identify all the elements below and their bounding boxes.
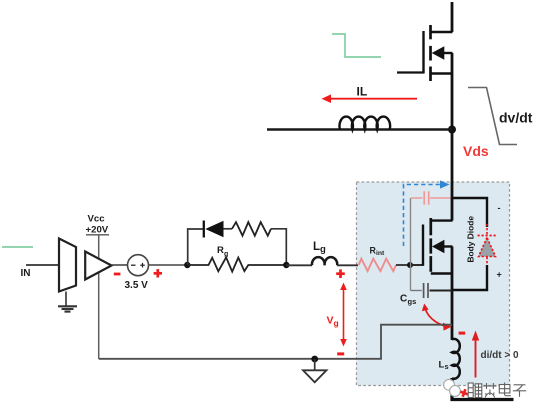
- internal gate net (vertical, Cgd to Cgs): [410, 198, 412, 291]
- wire IN to level shifter: [26, 264, 59, 266]
- wire Rint to gate node: [396, 264, 410, 266]
- svg-text:IN: IN: [21, 268, 31, 279]
- wire node B to Lg: [286, 264, 312, 266]
- IL current arrow (red, pointing left): [322, 94, 418, 103]
- MOSFET model region box: [357, 182, 510, 386]
- drain rail wire (top): [451, 2, 454, 32]
- watermark logo circles: [444, 379, 470, 398]
- wire buffer to source V1: [112, 264, 128, 266]
- svg-text:di/dt > 0: di/dt > 0: [481, 350, 520, 361]
- node IN label: [21, 268, 31, 279]
- dv/dt label: [499, 110, 533, 126]
- load inductor L1: [340, 117, 391, 130]
- inductor Ls (source parasitic): [452, 339, 460, 379]
- body diode branch wire (bottom): [452, 265, 487, 290]
- svg-text:g: g: [320, 244, 326, 255]
- body diode plus mark: [497, 270, 502, 280]
- node B junction dot: [283, 262, 289, 268]
- ground symbol (triangle): [303, 359, 327, 382]
- svg-text:Body Diode: Body Diode: [466, 216, 476, 263]
- resistor Rg label: [217, 245, 228, 258]
- dv/dt slope symbol (gray): [468, 88, 517, 145]
- ground (earth) under level shifter: [58, 306, 77, 311]
- source return wire (bottom, thick): [452, 378, 514, 400]
- resistor Rint label: [370, 246, 386, 258]
- wire resistor R2 down to node B: [271, 229, 286, 265]
- svg-text:+: +: [497, 270, 502, 280]
- gate driver buffer U2 (triangle): [85, 252, 111, 280]
- IL label: [357, 85, 368, 99]
- Miller current path (blue dashed arrow): [404, 180, 450, 246]
- green gate waveform (falling step): [332, 34, 381, 57]
- capacitor Cgs: [411, 283, 453, 298]
- svg-text:IL: IL: [357, 85, 368, 99]
- svg-text:C: C: [400, 294, 407, 305]
- di/dt > 0 label: [481, 350, 520, 361]
- wire Lg into module: [337, 264, 358, 266]
- svg-text:dv/dt: dv/dt: [499, 110, 533, 126]
- svg-text:gs: gs: [408, 297, 417, 306]
- wire gate node to gate: [410, 264, 423, 266]
- svg-text:+20V: +20V: [86, 224, 109, 235]
- resistor Rg: [187, 257, 286, 271]
- Vg measurement arrow (red, double head): [340, 283, 347, 347]
- Body Diode label (rotated): [466, 216, 476, 263]
- Vcc +20V supply label: [86, 213, 110, 235]
- svg-text:-: -: [498, 203, 501, 213]
- V1 plus polarity mark (red): [154, 269, 162, 277]
- svg-text:L: L: [313, 241, 320, 253]
- return wire (bottom net): [99, 325, 452, 359]
- Vcc rail wire through buffer to return: [98, 236, 100, 359]
- body diode minus mark: [498, 203, 501, 213]
- level shifter U1 (trapezoid): [59, 239, 76, 292]
- node A junction dot: [184, 262, 190, 268]
- Vg plus mark (red): [336, 269, 345, 278]
- svg-text:V: V: [327, 315, 334, 327]
- wire level shifter to ground: [65, 292, 67, 306]
- resistor R2 (series with D1): [232, 222, 271, 236]
- wire node A up to diode branch: [188, 229, 203, 265]
- Vg minus mark (red): [337, 352, 344, 355]
- V1 minus polarity mark (red): [114, 273, 121, 276]
- svg-text:Vcc: Vcc: [88, 213, 106, 224]
- Vds label (red): [463, 143, 489, 159]
- resistor Rint (internal gate resistance, pink): [359, 259, 396, 271]
- Vg label (red): [327, 315, 339, 328]
- diode D1 (turn-off path): [204, 221, 224, 238]
- load wire with inductor: [267, 128, 452, 131]
- capacitor Cgd (pink): [411, 191, 451, 204]
- svg-text:Vds: Vds: [463, 143, 489, 159]
- inductor Ls label: [439, 360, 449, 372]
- V1 value label 3.5 V: [125, 280, 149, 291]
- Cgs charging current arrow (red curved): [422, 304, 452, 331]
- di/dt current arrow (red, up): [472, 331, 479, 378]
- top switch MOSFET Q1: [397, 25, 453, 81]
- ground junction dot: [311, 356, 318, 363]
- voltage source V1 3.5V (circle): [128, 255, 149, 276]
- source inductance Ls minus mark (red): [459, 332, 466, 335]
- svg-text:R: R: [217, 245, 224, 256]
- svg-text:g: g: [334, 318, 339, 328]
- Cgs label: [400, 294, 416, 307]
- inductor Lg: [312, 257, 337, 265]
- power MOSFET Q2 (inside module): [423, 218, 453, 274]
- watermark text (outlined CJK drawn as shapes): [468, 383, 526, 398]
- wire V1 to node A: [149, 264, 188, 266]
- svg-text:3.5 V: 3.5 V: [125, 280, 149, 291]
- switch node junction dot: [448, 126, 456, 134]
- inductor Lg label: [313, 241, 326, 255]
- wire diode to resistor R2: [224, 228, 233, 230]
- green gate-drive waveform (input step, low): [2, 246, 33, 248]
- body diode D2 (red dashed): [478, 224, 497, 267]
- switch-node wire Q1 source down to Q2 drain: [451, 53, 454, 221]
- body diode branch wire (top): [452, 198, 487, 227]
- gate node junction dot: [407, 262, 413, 268]
- svg-text:int: int: [376, 250, 385, 257]
- wire Q2 source down to Ls: [451, 247, 454, 341]
- svg-text:s: s: [445, 362, 449, 371]
